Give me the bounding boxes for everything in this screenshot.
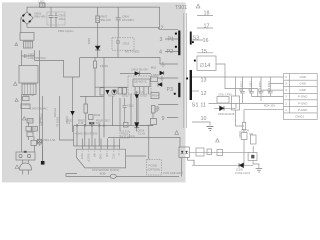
svg-text:0.1F: 0.1F — [78, 121, 84, 125]
IC901 — [77, 149, 126, 168]
svg-text:C912: C912 — [127, 104, 134, 108]
optocoupler PC901 — [179, 147, 189, 158]
rc boxes right of PC901 — [196, 148, 204, 156]
svg-text:GND: GND — [300, 88, 306, 92]
svg-text:M24 10V: M24 10V — [264, 104, 275, 108]
svg-text:L902: L902 — [39, 0, 46, 4]
mid cluster wires — [60, 58, 154, 147]
svg-text:P2: P2 — [167, 49, 174, 55]
resistor R911 — [89, 115, 94, 120]
svg-text:S3: S3 — [193, 36, 200, 42]
ground pin10 — [207, 127, 214, 131]
bridge diodes — [22, 13, 31, 23]
box pin14 — [197, 56, 216, 71]
svg-text:12: 12 — [201, 91, 207, 97]
svg-text:R912: R912 — [108, 94, 115, 98]
diode D905 — [95, 46, 100, 50]
labels — [157, 5, 211, 122]
diode Q-arrow — [160, 71, 164, 75]
svg-text:PC9 GAIN ADJ: PC9 GAIN ADJ — [164, 171, 184, 175]
svg-text:CL-01: CL-01 — [138, 132, 146, 136]
svg-text:C913: C913 — [123, 42, 130, 46]
jumper — [110, 174, 116, 178]
svg-text:2: 2 — [161, 26, 164, 32]
svg-text:4: 4 — [159, 50, 162, 56]
svg-text:+C940 100UF-50V: +C940 100UF-50V — [74, 131, 98, 135]
dashed R915 not used — [120, 131, 130, 138]
line filter LF901 — [24, 41, 33, 48]
line filter LF902 — [22, 84, 36, 95]
svg-text:17: 17 — [204, 24, 210, 30]
svg-text:P-GND: P-GND — [298, 101, 307, 105]
warning triangles — [14, 4, 220, 168]
svg-text:CN901: CN901 — [295, 114, 304, 118]
resistor R907 — [97, 7, 99, 40]
wire — [22, 50, 35, 65]
output cap wires — [243, 77, 271, 103]
svg-text:R902 1M: R902 1M — [23, 93, 35, 97]
diode D923 — [239, 163, 244, 168]
svg-text:6: 6 — [161, 77, 164, 83]
resistor R916 box — [151, 119, 157, 125]
transformer T901 winding bars — [178, 31, 180, 56]
polarity dots — [175, 33, 177, 35]
IC901 source wire — [66, 174, 179, 177]
svg-text:P-GND: P-GND — [298, 95, 307, 99]
svg-text:T901: T901 — [175, 5, 187, 11]
wire pin13 to CN — [192, 76, 284, 78]
svg-text:GND: GND — [300, 82, 306, 86]
diode D902 — [70, 111, 74, 116]
secondary feedback row — [192, 164, 253, 166]
svg-text:P-GND: P-GND — [298, 108, 307, 112]
svg-text:P3: P3 — [167, 87, 174, 93]
resistor R910 — [84, 104, 88, 113]
sideways labels — [82, 151, 121, 153]
svg-text:1N4148: 1N4148 — [225, 112, 235, 116]
svg-text:RBV-406: RBV-406 — [35, 15, 47, 19]
earth terminal — [41, 161, 45, 165]
line filter box TH901 — [20, 33, 34, 41]
inductor L901 — [94, 61, 97, 68]
capacitor C904 — [116, 7, 121, 38]
box D922 — [241, 133, 247, 140]
svg-text:(OPTION): (OPTION) — [148, 168, 161, 172]
fuse F901 — [31, 140, 37, 145]
secondary stubs — [192, 16, 213, 53]
plug P901 — [20, 163, 32, 170]
svg-text:P901 Option: P901 Option — [58, 29, 74, 33]
svg-text:F9001: F9001 — [100, 64, 108, 68]
svg-text:15: 15 — [201, 49, 207, 55]
svg-text:S1 11: S1 11 — [192, 103, 207, 109]
svg-text:100u: 100u — [59, 17, 66, 21]
svg-text:-6DB-: -6DB- — [99, 172, 106, 176]
svg-text:∅14: ∅14 — [200, 63, 211, 69]
transformer core — [184, 13, 187, 128]
capacitor C901 — [21, 104, 30, 109]
svg-text:C92x LF50: C92x LF50 — [218, 93, 232, 97]
svg-text:0.022/250VAC: 0.022/250VAC — [28, 56, 46, 60]
capacitor C902 box — [22, 54, 35, 58]
error amp box — [248, 153, 257, 161]
wire to PC901 — [108, 137, 180, 147]
resistor R909 — [152, 106, 156, 114]
svg-text:5: 5 — [162, 63, 165, 69]
transformer T901 primary stubs — [157, 39, 178, 118]
svg-text:C921: C921 — [30, 127, 37, 131]
capacitor C907 — [49, 7, 58, 27]
wire left column — [22, 50, 80, 161]
wire pin14 — [216, 64, 258, 97]
svg-text:R9: R9 — [250, 132, 254, 136]
wire pin11 rail — [209, 103, 284, 108]
connector CN901 table — [284, 74, 318, 120]
diode D914 — [134, 123, 139, 128]
svg-text:13: 13 — [201, 78, 207, 84]
svg-text:0.68W: 0.68W — [151, 73, 159, 77]
terminal block — [16, 152, 35, 160]
svg-text:R903: R903 — [27, 118, 34, 122]
svg-text:NOT USED: NOT USED — [125, 50, 139, 54]
svg-text:R911: R911 — [94, 113, 101, 117]
inductor L902 on rail — [40, 3, 46, 8]
svg-text:P1: P1 — [168, 37, 175, 43]
shield box C903 — [19, 66, 38, 84]
svg-text:GND: GND — [300, 75, 306, 79]
diode D915 — [135, 71, 139, 75]
svg-text:10: 10 — [201, 116, 207, 122]
svg-text:LCD4-110-5: LCD4-110-5 — [235, 171, 250, 175]
connector labels — [285, 75, 307, 118]
svg-text:1 2 3 4: 1 2 3 4 — [135, 90, 144, 94]
wires to connector rows — [244, 84, 284, 123]
wire pin12 stub — [192, 90, 199, 92]
diode D908 — [158, 83, 162, 87]
component stack C921 — [26, 127, 32, 132]
svg-text:M10: M10 — [151, 66, 157, 70]
wire IC to optocoupler — [126, 155, 147, 157]
diode D906 — [97, 40, 99, 58]
diode D921 — [220, 106, 225, 111]
box C930 — [251, 135, 257, 144]
svg-text:3: 3 — [160, 37, 163, 43]
svg-text:C9 D9: C9 D9 — [241, 129, 249, 133]
ground error amp — [256, 168, 263, 172]
svg-text:C917: C917 — [104, 118, 111, 122]
transistor Q901 — [112, 89, 117, 94]
resistor R924 — [242, 123, 245, 130]
diode D907 — [151, 93, 159, 99]
resistor R901 — [23, 97, 30, 101]
capacitor C914 — [124, 123, 129, 128]
diode D913 — [135, 94, 140, 99]
optocoupler internals — [181, 151, 184, 154]
capacitor C912 — [123, 98, 127, 123]
svg-text:NOT USED: NOT USED — [121, 135, 135, 139]
svg-text:56k-CW: 56k-CW — [101, 18, 111, 22]
svg-text:9: 9 — [162, 116, 165, 122]
resistor R903 — [27, 119, 33, 124]
dashed IC902 block — [128, 76, 151, 94]
svg-text:C901: C901 — [23, 102, 30, 106]
capacitor C920 — [37, 139, 42, 144]
svg-text:D912: D912 — [122, 94, 129, 98]
svg-text:0.047/250VAC: 0.047/250VAC — [30, 106, 48, 110]
svg-text:18: 18 — [204, 11, 210, 17]
svg-text:18k: 18k — [96, 121, 101, 125]
box R922 — [232, 96, 240, 110]
junction dots — [76, 125, 104, 126]
svg-text:16: 16 — [203, 38, 209, 44]
svg-text:D915 BL-GR: D915 BL-GR — [132, 67, 148, 71]
primary bus — [80, 58, 178, 65]
svg-text:R914: R914 — [152, 94, 159, 98]
svg-text:104 630V: 104 630V — [122, 18, 134, 22]
svg-text:SE-WXYZ: SE-WXYZ — [134, 80, 147, 84]
svg-text:C915: C915 — [140, 94, 147, 98]
svg-text:F901 2.5A: F901 2.5A — [43, 138, 56, 142]
dashed PC902 option — [146, 160, 161, 176]
wire to bus — [35, 60, 80, 77]
wire pin10 — [192, 122, 210, 126]
box D920 — [217, 97, 229, 104]
wire top DC rail — [27, 7, 178, 29]
transistor diode mid — [106, 90, 110, 95]
capacitor C913 (not used) — [112, 38, 134, 50]
primary-side shaded area — [2, 2, 186, 182]
bridge rectifier D901 — [21, 12, 33, 24]
cap marks — [89, 122, 91, 124]
